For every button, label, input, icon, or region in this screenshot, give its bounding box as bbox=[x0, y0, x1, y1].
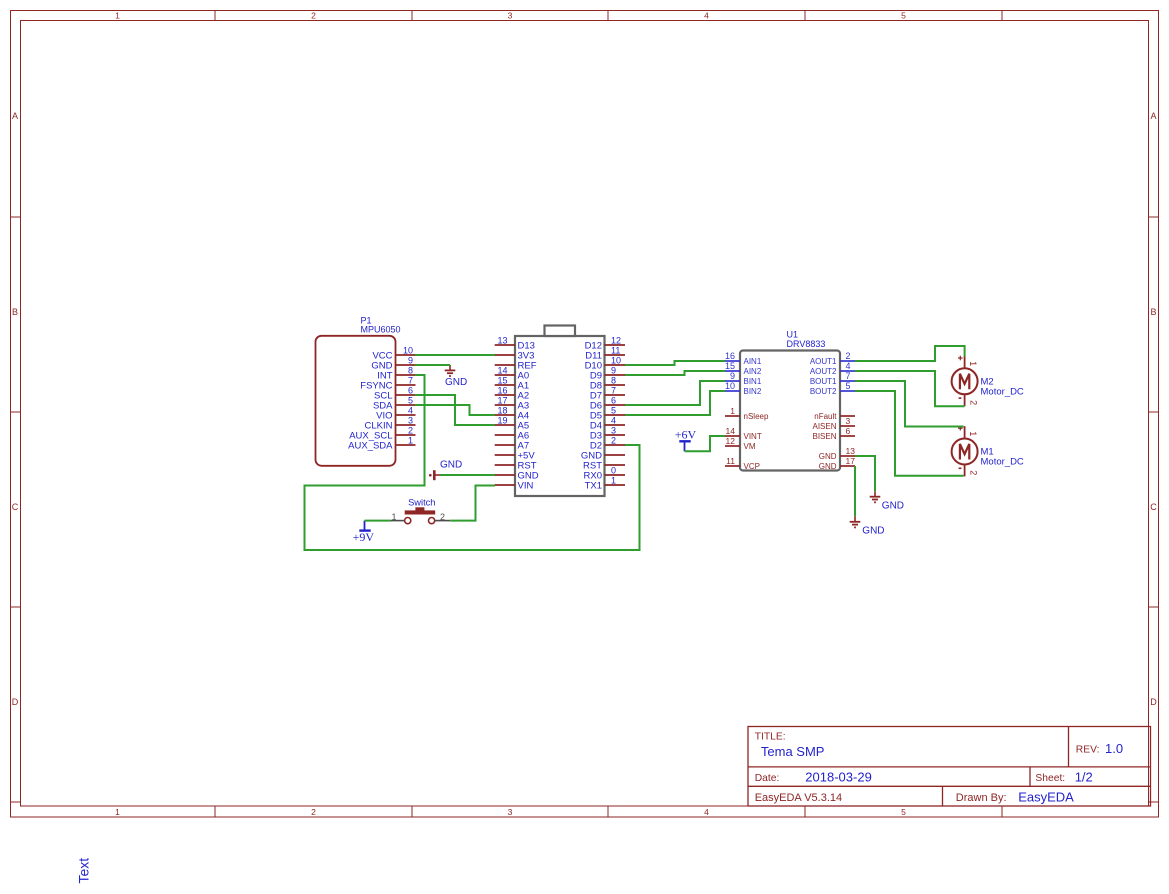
svg-text:nFault: nFault bbox=[814, 412, 837, 421]
svg-text:8: 8 bbox=[408, 366, 413, 376]
wire AOUT1 to M2 + bbox=[855, 346, 965, 361]
svg-text:1: 1 bbox=[391, 512, 396, 522]
Nano right pin D7 (7) bbox=[590, 386, 625, 402]
U1 right pin BOUT1 (7) bbox=[810, 371, 855, 386]
svg-text:15: 15 bbox=[498, 376, 508, 386]
svg-text:1.0: 1.0 bbox=[1105, 741, 1123, 756]
svg-text:4: 4 bbox=[846, 361, 851, 371]
svg-text:9: 9 bbox=[408, 356, 413, 366]
wire SCL: P1 pin6 to Nano A5 bbox=[415, 395, 495, 425]
svg-text:BIN1: BIN1 bbox=[744, 377, 762, 386]
svg-text:16: 16 bbox=[498, 386, 508, 396]
svg-text:4: 4 bbox=[611, 416, 616, 426]
wire D5 to U1 BIN2 bbox=[625, 391, 725, 415]
svg-text:4: 4 bbox=[408, 406, 413, 416]
wire BOUT2 to M1 - bbox=[855, 391, 964, 476]
Nano left pin A3 (17) bbox=[495, 396, 529, 412]
P1 pin 8 INT bbox=[377, 366, 415, 382]
svg-text:MPU6050: MPU6050 bbox=[361, 325, 401, 335]
svg-text:9: 9 bbox=[730, 371, 735, 381]
svg-text:13: 13 bbox=[846, 446, 856, 456]
svg-text:2: 2 bbox=[611, 436, 616, 446]
svg-text:6: 6 bbox=[846, 426, 851, 436]
component U1 DRV8833 body bbox=[740, 330, 840, 471]
U1 left pin 9 BIN1 bbox=[725, 371, 762, 386]
ground symbol at U1 GND pin 17 bbox=[850, 516, 885, 536]
Nano right pin D8 (8) bbox=[590, 376, 625, 392]
U1 left pin 14 VINT bbox=[725, 426, 762, 441]
svg-text:11: 11 bbox=[726, 456, 735, 466]
svg-text:7: 7 bbox=[846, 371, 851, 381]
svg-text:VCP: VCP bbox=[744, 462, 760, 471]
svg-text:U1: U1 bbox=[787, 330, 799, 340]
svg-text:17: 17 bbox=[846, 456, 856, 466]
wire INT net: P1 pin8 - loop - Nano D2 bbox=[305, 375, 640, 550]
wire +9V to switch pin 1 bbox=[365, 520, 392, 522]
svg-text:5: 5 bbox=[846, 381, 851, 391]
switch pin 1 lead bbox=[391, 512, 404, 522]
wire U1 GND17 to ground bbox=[854, 466, 856, 516]
component Arduino Nano body bbox=[515, 326, 605, 497]
switch pin 2 lead bbox=[435, 512, 450, 522]
U1 left pin 1 nSleep bbox=[725, 406, 769, 421]
Nano left pin +5V bbox=[495, 451, 536, 462]
motor M2 Motor_DC body bbox=[952, 368, 1024, 397]
P1 pin 2 AUX_SCL bbox=[349, 426, 415, 442]
svg-text:GND: GND bbox=[445, 377, 467, 388]
U1 right pin nFault bbox=[814, 412, 855, 421]
Nano right pin D9 (9) bbox=[590, 366, 625, 382]
svg-text:3: 3 bbox=[508, 807, 513, 817]
svg-text:BIN2: BIN2 bbox=[744, 387, 762, 396]
svg-text:Tema SMP: Tema SMP bbox=[761, 744, 825, 759]
svg-text:D: D bbox=[1150, 697, 1157, 707]
svg-text:AUX_SDA: AUX_SDA bbox=[348, 440, 393, 451]
P1 pin 4 VIO bbox=[376, 406, 415, 422]
wire D10 to U1 AIN1 bbox=[625, 361, 725, 365]
title block bbox=[748, 727, 1151, 807]
svg-text:GND: GND bbox=[440, 460, 462, 471]
svg-text:BOUT2: BOUT2 bbox=[810, 387, 837, 396]
svg-text:2: 2 bbox=[408, 426, 413, 436]
svg-text:Motor_DC: Motor_DC bbox=[981, 387, 1024, 398]
svg-text:7: 7 bbox=[611, 386, 616, 396]
svg-text:Motor_DC: Motor_DC bbox=[981, 457, 1024, 468]
svg-text:Date:: Date: bbox=[755, 773, 780, 784]
svg-text:VINT: VINT bbox=[744, 432, 762, 441]
Nano left pin A1 (15) bbox=[495, 376, 529, 392]
svg-text:A: A bbox=[12, 111, 18, 121]
svg-text:12: 12 bbox=[611, 336, 621, 346]
Nano right pin D10 (10) bbox=[585, 356, 625, 372]
svg-text:TITLE:: TITLE: bbox=[755, 732, 786, 743]
svg-text:12: 12 bbox=[726, 436, 736, 446]
U1 right pin GND (13) bbox=[819, 446, 856, 461]
svg-text:13: 13 bbox=[498, 336, 508, 346]
svg-text:AIN2: AIN2 bbox=[744, 367, 762, 376]
svg-text:4: 4 bbox=[704, 807, 709, 817]
Nano left pin A4 (18) bbox=[495, 406, 529, 422]
Nano right pin RST bbox=[583, 461, 625, 472]
svg-text:5: 5 bbox=[901, 807, 906, 817]
svg-text:2: 2 bbox=[311, 807, 316, 817]
motor M1 Motor_DC body bbox=[952, 439, 1024, 468]
svg-text:10: 10 bbox=[403, 346, 413, 356]
ground symbol at U1 GND pin 13 bbox=[870, 491, 904, 511]
svg-text:AOUT2: AOUT2 bbox=[810, 367, 837, 376]
P1 pin 10 VCC bbox=[372, 346, 415, 362]
M1 pin 2 (-) lead bbox=[959, 465, 979, 477]
Nano left pin GND bbox=[495, 471, 539, 482]
svg-text:1: 1 bbox=[968, 361, 978, 366]
svg-text:nSleep: nSleep bbox=[744, 412, 769, 421]
P1 pin 9 GND bbox=[371, 356, 415, 372]
Nano left pin D13 (13) bbox=[495, 336, 535, 352]
svg-text:C: C bbox=[1150, 502, 1157, 512]
power flag +9V bbox=[353, 521, 375, 544]
Nano right pin D12 (12) bbox=[585, 336, 625, 352]
svg-text:Drawn By:: Drawn By: bbox=[956, 792, 1007, 804]
svg-text:1: 1 bbox=[968, 431, 978, 436]
svg-text:18: 18 bbox=[498, 406, 508, 416]
Nano right pin D6 (6) bbox=[590, 396, 625, 412]
ground symbol at P1 GND bbox=[445, 365, 468, 388]
wire SDA: P1 pin5 to Nano A4 bbox=[415, 405, 495, 415]
svg-text:BOUT1: BOUT1 bbox=[810, 377, 837, 386]
M2 pin 1 (+) lead bbox=[958, 356, 978, 369]
svg-text:3: 3 bbox=[846, 416, 851, 426]
svg-text:B: B bbox=[12, 307, 18, 317]
svg-text:A: A bbox=[1150, 111, 1156, 121]
svg-text:REV:: REV: bbox=[1076, 745, 1100, 756]
U1 left pin 10 BIN2 bbox=[725, 381, 762, 396]
wire GND: P1 pin9 to ground bbox=[415, 364, 450, 366]
Nano left pin A2 (16) bbox=[495, 386, 529, 402]
Nano right pin GND bbox=[581, 451, 625, 462]
svg-text:2: 2 bbox=[311, 11, 316, 21]
Nano left pin 3V3 bbox=[495, 351, 535, 362]
svg-text:4: 4 bbox=[704, 11, 709, 21]
svg-text:VIN: VIN bbox=[518, 481, 534, 492]
svg-text:+9V: +9V bbox=[353, 530, 375, 544]
svg-text:D: D bbox=[12, 697, 19, 707]
svg-text:AISEN: AISEN bbox=[812, 422, 836, 431]
svg-text:GND: GND bbox=[819, 452, 837, 461]
P1 pin 7 FSYNC bbox=[360, 376, 415, 392]
svg-text:6: 6 bbox=[611, 396, 616, 406]
wire D9 to U1 AIN2 bbox=[625, 371, 725, 375]
svg-text:5: 5 bbox=[901, 11, 906, 21]
svg-text:6: 6 bbox=[408, 386, 413, 396]
U1 right pin BOUT2 (5) bbox=[810, 381, 855, 396]
wire AOUT2 to M2 - bbox=[855, 371, 965, 406]
U1 right pin AISEN (3) bbox=[812, 416, 855, 431]
svg-text:14: 14 bbox=[726, 426, 736, 436]
Nano right pin RX0 (0) bbox=[584, 466, 625, 482]
P1 pin 3 CLKIN bbox=[365, 416, 416, 432]
svg-text:19: 19 bbox=[498, 416, 508, 426]
Nano left pin A6 bbox=[495, 431, 529, 442]
M1 pin 1 (+) lead bbox=[958, 426, 978, 439]
svg-text:AOUT1: AOUT1 bbox=[810, 357, 837, 366]
svg-text:15: 15 bbox=[725, 361, 735, 371]
wire VIN net: Nano VIN to switch pin 2 bbox=[450, 486, 495, 521]
Nano right pin D4 (4) bbox=[590, 416, 625, 432]
svg-text:17: 17 bbox=[498, 396, 508, 406]
switch Switch (pushbutton) bbox=[405, 498, 436, 524]
P1 pin 1 AUX_SDA bbox=[348, 436, 415, 452]
P1 pin 5 SDA bbox=[373, 396, 416, 412]
svg-text:1/2: 1/2 bbox=[1075, 769, 1093, 784]
svg-text:10: 10 bbox=[611, 356, 621, 366]
U1 right pin GND (17) bbox=[819, 456, 856, 471]
svg-text:1: 1 bbox=[408, 436, 413, 446]
svg-text:AIN1: AIN1 bbox=[744, 357, 762, 366]
svg-text:5: 5 bbox=[408, 396, 413, 406]
svg-text:3: 3 bbox=[408, 416, 413, 426]
svg-text:VM: VM bbox=[744, 442, 756, 451]
svg-text:C: C bbox=[12, 502, 19, 512]
svg-text:Text: Text bbox=[76, 858, 92, 884]
svg-text:EasyEDA: EasyEDA bbox=[1018, 789, 1074, 804]
Nano left pin RST bbox=[495, 461, 537, 472]
svg-text:8: 8 bbox=[611, 376, 616, 386]
Nano right pin D2 (2) bbox=[590, 436, 625, 452]
svg-text:2: 2 bbox=[440, 512, 445, 522]
svg-text:2: 2 bbox=[969, 400, 979, 405]
ground flag at Nano GND bbox=[429, 460, 462, 481]
svg-text:+6V: +6V bbox=[675, 428, 697, 442]
U1 right pin AOUT1 (2) bbox=[810, 351, 855, 366]
Nano left pin REF bbox=[495, 361, 537, 372]
svg-text:14: 14 bbox=[498, 366, 508, 376]
U1 right pin AOUT2 (4) bbox=[810, 361, 855, 376]
svg-text:GND: GND bbox=[862, 525, 884, 536]
svg-text:EasyEDA V5.3.14: EasyEDA V5.3.14 bbox=[755, 792, 842, 804]
Nano left pin A5 (19) bbox=[495, 416, 529, 432]
svg-text:7: 7 bbox=[408, 376, 413, 386]
Nano right pin D11 (11) bbox=[585, 346, 625, 362]
Nano right pin D3 (3) bbox=[590, 426, 625, 442]
wire VCC: P1 pin10 to Nano 3V3 bbox=[415, 354, 495, 356]
svg-text:2018-03-29: 2018-03-29 bbox=[805, 769, 872, 784]
svg-text:1: 1 bbox=[115, 807, 120, 817]
wire BOUT1 to M1 + bbox=[855, 381, 964, 427]
wire +6V to U1 VINT bbox=[685, 436, 726, 451]
power flag +6V bbox=[675, 428, 697, 452]
svg-text:1: 1 bbox=[115, 11, 120, 21]
U1 left pin 16 AIN1 bbox=[725, 351, 762, 366]
U1 left pin 15 AIN2 bbox=[725, 361, 762, 376]
svg-text:9: 9 bbox=[611, 366, 616, 376]
svg-text:0: 0 bbox=[611, 466, 616, 476]
Nano right pin TX1 (1) bbox=[585, 476, 625, 492]
Nano right pin D5 (5) bbox=[590, 406, 625, 422]
svg-text:GND: GND bbox=[819, 462, 837, 471]
svg-text:5: 5 bbox=[611, 406, 616, 416]
svg-text:3: 3 bbox=[611, 426, 616, 436]
svg-text:10: 10 bbox=[725, 381, 735, 391]
svg-text:DRV8833: DRV8833 bbox=[787, 339, 826, 349]
wire GND: ground flag to Nano GND bbox=[440, 474, 495, 476]
svg-text:BISEN: BISEN bbox=[812, 432, 836, 441]
svg-text:Switch: Switch bbox=[408, 498, 435, 508]
svg-text:Sheet:: Sheet: bbox=[1035, 773, 1065, 784]
wire U1 GND13 to ground bbox=[855, 456, 875, 491]
svg-text:3: 3 bbox=[508, 11, 513, 21]
Nano left pin A7 bbox=[495, 441, 529, 452]
component P1 MPU6050 body bbox=[316, 316, 401, 466]
svg-text:2: 2 bbox=[969, 470, 979, 475]
P1 pin 6 SCL bbox=[374, 386, 415, 402]
U1 left pin 11 VCP bbox=[725, 456, 760, 471]
svg-text:GND: GND bbox=[882, 500, 904, 511]
U1 left pin 12 VM bbox=[725, 436, 756, 451]
wire D6 to U1 BIN1 bbox=[625, 381, 725, 405]
Nano left pin VIN bbox=[495, 481, 534, 492]
U1 right pin BISEN (6) bbox=[812, 426, 855, 441]
svg-text:TX1: TX1 bbox=[585, 481, 602, 492]
svg-text:1: 1 bbox=[611, 476, 616, 486]
svg-text:2: 2 bbox=[846, 351, 851, 361]
svg-text:B: B bbox=[1150, 307, 1156, 317]
Nano left pin A0 (14) bbox=[495, 366, 529, 382]
svg-text:16: 16 bbox=[725, 351, 735, 361]
svg-text:1: 1 bbox=[730, 406, 735, 416]
svg-text:11: 11 bbox=[611, 346, 620, 356]
M2 pin 2 (-) lead bbox=[959, 394, 979, 406]
